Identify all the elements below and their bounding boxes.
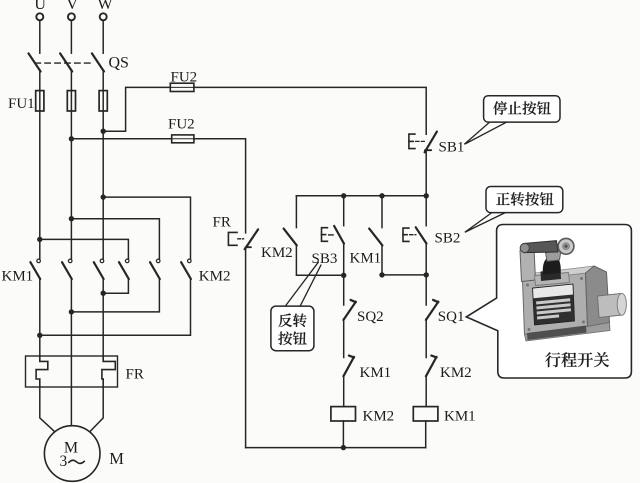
svg-text:FU2: FU2 xyxy=(168,117,195,133)
svg-text:KM1: KM1 xyxy=(444,409,476,425)
svg-text:KM2: KM2 xyxy=(261,245,293,261)
svg-text:SQ2: SQ2 xyxy=(357,309,384,325)
svg-text:U: U xyxy=(34,0,46,13)
svg-text:M: M xyxy=(109,449,124,468)
svg-text:SB1: SB1 xyxy=(439,140,465,156)
svg-text:KM2: KM2 xyxy=(440,365,472,381)
svg-text:FR: FR xyxy=(126,367,144,383)
svg-text:W: W xyxy=(97,0,113,13)
svg-text:FU1: FU1 xyxy=(8,96,35,112)
svg-text:KM1: KM1 xyxy=(2,269,34,285)
svg-text:SQ1: SQ1 xyxy=(438,309,465,325)
svg-text:KM1: KM1 xyxy=(360,365,392,381)
svg-text:SB3: SB3 xyxy=(312,251,338,267)
svg-text:KM2: KM2 xyxy=(199,269,231,285)
svg-text:FR: FR xyxy=(213,215,231,231)
svg-text:QS: QS xyxy=(109,55,129,72)
svg-text:3: 3 xyxy=(60,453,68,470)
svg-text:FU2: FU2 xyxy=(171,70,198,86)
svg-text:KM2: KM2 xyxy=(363,409,395,425)
svg-text:V: V xyxy=(66,0,78,13)
svg-text:KM1: KM1 xyxy=(350,251,382,267)
svg-text:SB2: SB2 xyxy=(435,231,461,247)
